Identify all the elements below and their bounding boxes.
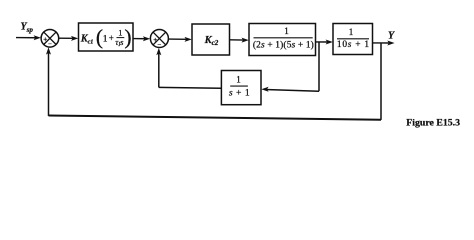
summing junction 1 — [41, 30, 59, 49]
wire: Kc2 to process block — [230, 38, 249, 43]
wire: process to block 1/(10s+1), with tap node — [316, 40, 333, 45]
wire: output line with tap node — [373, 41, 395, 46]
wire: inner tap vertical down — [318, 42, 320, 91]
svg-text:10s + 1: 10s + 1 — [337, 40, 370, 50]
summing junction 2 — [150, 30, 168, 49]
svg-text:τIs: τIs — [115, 38, 123, 48]
svg-text:): ) — [124, 25, 131, 49]
svg-text:+: + — [109, 33, 114, 43]
wire: junction2 to block Kc2 — [169, 37, 192, 42]
wire: inner feedback vertical up into junction2 — [156, 48, 161, 88]
svg-text:1: 1 — [236, 74, 241, 84]
svg-text:(2s + 1)(5s + 1): (2s + 1)(5s + 1) — [253, 39, 314, 50]
block Kc2 — [192, 24, 230, 55]
svg-text:1: 1 — [118, 27, 122, 37]
svg-text:1: 1 — [103, 34, 108, 44]
wire: outer feedback left vertical with arrow into junction1 — [46, 47, 51, 116]
wire: outer feedback bottom line — [49, 116, 382, 120]
block PI controller Kc1(1+1/(tau_I s)) — [79, 23, 134, 51]
block process 1/((2s+1)(5s+1)) — [249, 24, 316, 56]
svg-text:1: 1 — [284, 26, 289, 36]
wire: junction1 to block1 — [59, 36, 79, 41]
wire: inner feedback right segment with arrow into block 1/(s+1) — [261, 87, 319, 92]
wire: inner feedback left segment — [159, 86, 221, 89]
wire: outer tap vertical down — [380, 43, 382, 120]
wire: block1 to junction2 — [133, 36, 150, 41]
svg-text:1: 1 — [349, 27, 354, 37]
svg-text:Y: Y — [388, 31, 395, 42]
svg-text:Figure E15.3: Figure E15.3 — [406, 117, 460, 128]
wire: input line Ysp — [16, 35, 41, 40]
svg-text:−: − — [48, 41, 52, 48]
svg-text:+: + — [43, 36, 47, 44]
svg-text:s + 1: s + 1 — [229, 87, 250, 98]
block 1/(10s+1) — [333, 24, 373, 55]
svg-text:Ysp: Ysp — [21, 22, 34, 35]
block 1/(s+1) — [221, 71, 261, 105]
svg-text:−: − — [157, 41, 161, 49]
